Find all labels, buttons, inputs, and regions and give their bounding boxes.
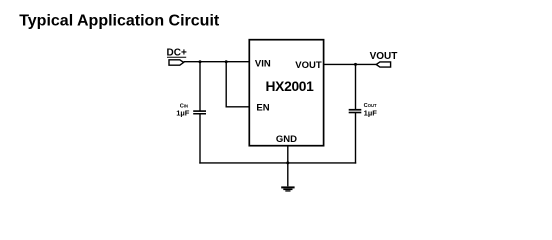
wire bottom ground bus (200, 162, 356, 164)
terminal VOUT (output port symbol) (376, 62, 390, 67)
svg-text:VOUT: VOUT (370, 51, 398, 62)
label DC+ (167, 48, 187, 59)
capacitor COUT (349, 109, 362, 113)
svg-text:1µF: 1µF (176, 109, 190, 118)
wire VOUT pin to output terminal (324, 63, 377, 65)
junction node D (GND on bottom bus) (286, 161, 289, 164)
svg-text:EN: EN (256, 102, 269, 113)
svg-text:HX2001: HX2001 (266, 79, 315, 94)
wire DC+ to VIN pin (184, 61, 250, 63)
wire EN branch horizontal segment (226, 106, 249, 108)
op IC U1 HX2001 box (249, 40, 323, 146)
wire GND pin down to ground (287, 146, 289, 186)
svg-text:VOUT: VOUT (295, 60, 322, 71)
ground (earth symbol) (281, 186, 294, 191)
wire CIN branch lower segment (199, 115, 201, 163)
junction node A (CIN tap on VIN wire) (199, 60, 202, 63)
wire EN branch vertical segment (225, 62, 227, 107)
wire COUT branch upper segment (355, 64, 357, 109)
junction node B (EN tap on VIN wire) (225, 60, 228, 63)
wire CIN branch upper segment (199, 62, 201, 111)
capacitor CIN (193, 110, 206, 114)
svg-text:1µF: 1µF (364, 109, 378, 118)
svg-text:Typical Application Circuit: Typical Application Circuit (19, 13, 220, 30)
svg-text:VIN: VIN (255, 58, 271, 69)
terminal DC+ (input port symbol) (169, 60, 184, 65)
wire COUT branch lower segment (355, 113, 357, 163)
svg-text:GND: GND (276, 134, 297, 145)
junction node C (COUT tap on VOUT wire) (354, 63, 357, 66)
